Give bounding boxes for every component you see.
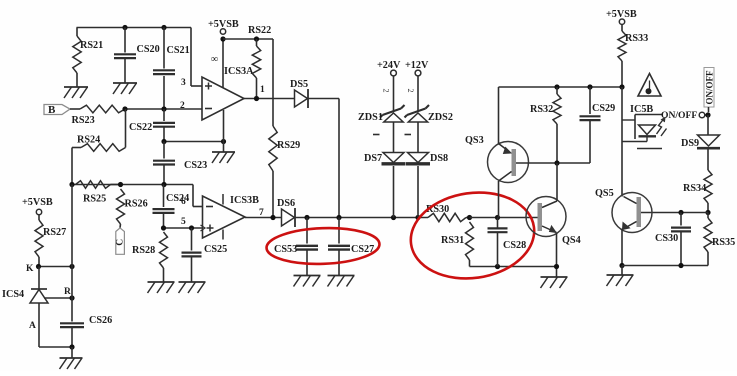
capacitor CS27	[338, 218, 340, 244]
resistor RS25	[76, 181, 111, 189]
wire ZDS1 to DS7	[393, 122, 395, 153]
svg-text:2: 2	[180, 101, 185, 111]
wire +24V column	[393, 76, 395, 111]
resistor RS29 pull-up	[269, 126, 277, 171]
reference pin R wire	[44, 297, 72, 299]
node dot QS3 base/QS4 collector	[554, 160, 559, 165]
resistor RS21	[76, 28, 78, 37]
svg-text:1: 1	[260, 85, 265, 95]
wire pin2 row	[125, 108, 202, 110]
resistor RS31	[466, 222, 474, 260]
diode DS7	[383, 153, 404, 163]
svg-text:7: 7	[259, 208, 264, 218]
ground for RS21	[64, 86, 88, 88]
svg-text:RS33: RS33	[625, 33, 648, 44]
wire RS24 branch	[125, 109, 127, 148]
svg-text:B: B	[48, 104, 56, 116]
capacitor CS53	[306, 218, 308, 244]
ground for RS28	[148, 281, 175, 283]
svg-text:CS23: CS23	[184, 160, 207, 171]
ground for ICS3A	[223, 142, 225, 153]
ground for CS25	[179, 281, 206, 283]
wire pin5 row	[164, 227, 203, 229]
ground for ICS4	[71, 347, 73, 358]
node dot K node	[36, 264, 41, 269]
op-amp ICS3B output wire pin 7	[245, 217, 282, 219]
svg-text:DS9: DS9	[681, 138, 699, 149]
node dot divider RS24/RS25	[69, 182, 74, 187]
resistor RS22	[254, 36, 259, 41]
svg-text:CS20: CS20	[137, 44, 160, 55]
diode DS9	[707, 115, 709, 135]
svg-text:QS5: QS5	[595, 188, 614, 199]
svg-text:RS35: RS35	[712, 237, 735, 248]
wire DS8 to bus	[417, 166, 419, 218]
capacitor CS30	[680, 213, 682, 226]
red ellipse annotation around RS30 RS31 CS28	[405, 185, 540, 286]
node dot ICS3A V- junction	[221, 139, 226, 144]
input tag B	[44, 105, 70, 115]
svg-text:DS5: DS5	[290, 79, 308, 90]
wire +5VSB rail to pullups	[223, 38, 273, 40]
resistor RS26	[117, 189, 125, 224]
svg-text:K: K	[26, 264, 34, 274]
svg-text:CS21: CS21	[167, 45, 190, 56]
svg-text:RS23: RS23	[72, 115, 95, 126]
zener diode ZDS2	[407, 109, 426, 116]
wire TL431 cathode row	[39, 266, 73, 268]
capacitor CS21	[163, 28, 165, 69]
svg-text:5: 5	[181, 217, 186, 227]
wire TL431 anode bottom row	[39, 346, 72, 348]
svg-text:QS3: QS3	[465, 135, 484, 146]
svg-text:R: R	[64, 287, 71, 297]
node dot RS30/RS31	[467, 215, 472, 220]
svg-text:RS24: RS24	[77, 135, 100, 146]
wire +12V column	[417, 76, 419, 111]
ground for QS4	[541, 276, 568, 278]
transistor QS3	[488, 142, 529, 183]
resistor RS27	[38, 215, 40, 220]
tag C	[116, 228, 125, 254]
transistor QS4	[526, 197, 566, 237]
ground for CS20	[113, 82, 137, 84]
node dot ON/OFF	[705, 112, 710, 117]
node dot RS33 junction	[619, 84, 624, 89]
op-amp ICS3B	[203, 196, 246, 238]
node dot CS30 top	[678, 210, 683, 215]
wire QS3 base row	[516, 162, 590, 164]
node dot +5VSB rail	[220, 36, 225, 41]
capacitor CS23	[163, 142, 165, 159]
node dot QS5 emitter	[619, 263, 624, 268]
capacitor CS29	[589, 87, 591, 114]
ground for CS27	[328, 275, 355, 277]
warning triangle symbol	[638, 74, 661, 97]
svg-text:DS8: DS8	[430, 153, 448, 164]
svg-text:2: 2	[382, 89, 391, 93]
node dot CS23/CS24 row junction	[161, 182, 166, 187]
node dot CS29 top	[587, 84, 592, 89]
wire ICS3A gnd row	[164, 141, 224, 143]
svg-text:RS28: RS28	[132, 245, 155, 256]
op-amp ICS3A	[202, 77, 244, 120]
capacitor CS24	[163, 185, 165, 208]
svg-text:RS27: RS27	[43, 227, 66, 238]
wire top rail from RS21 to ICS3A pin3	[77, 27, 192, 29]
node dot CS28 bottom	[495, 264, 500, 269]
node dot CS25 tap	[189, 225, 194, 230]
wire divider column to CS26	[71, 185, 73, 322]
svg-text:C: C	[115, 239, 125, 246]
node dot CS22/CS23 junction	[161, 139, 166, 144]
node dot RS29 junction	[270, 215, 275, 220]
red ellipse annotation around CS53 CS27	[266, 226, 380, 266]
svg-text:ZDS1: ZDS1	[358, 112, 383, 123]
svg-text:CS22: CS22	[129, 122, 152, 133]
svg-text:CS26: CS26	[89, 315, 112, 326]
svg-text:RS32: RS32	[530, 104, 553, 115]
svg-text:ZDS2: ZDS2	[428, 112, 453, 123]
polarity dash ZDS2	[405, 134, 412, 136]
node dot QS3 collector/CS28	[495, 215, 500, 220]
wire RS33 column to opto	[621, 87, 623, 197]
diode DS6	[282, 209, 295, 226]
svg-text:CS25: CS25	[204, 244, 227, 255]
wire DS7 to bus	[393, 166, 395, 218]
svg-text:∞: ∞	[211, 54, 218, 65]
node dot top rail CS21	[161, 25, 166, 30]
node dot CS53	[304, 215, 309, 220]
resistor RS23	[70, 108, 80, 110]
resistor RS28	[160, 232, 168, 268]
svg-text:+24V: +24V	[377, 60, 401, 71]
polarity dash ZDS1	[373, 134, 380, 136]
svg-text:RS34: RS34	[683, 183, 706, 194]
node dot CS30 bottom	[678, 263, 683, 268]
transistor QS5	[612, 193, 652, 233]
svg-text:+12V: +12V	[405, 60, 429, 71]
diode DS5	[295, 90, 308, 107]
resistor RS32	[556, 87, 558, 94]
svg-text:QS4: QS4	[562, 235, 581, 246]
node dot top rail CS20	[122, 25, 127, 30]
capacitor CS20	[124, 28, 126, 53]
wire bus to QS4 base	[470, 217, 538, 219]
ground for CS53	[294, 275, 321, 277]
diode DS8	[408, 153, 429, 163]
node dot RS26 junction	[118, 182, 123, 187]
wire reference row	[72, 184, 193, 186]
svg-text:DS7: DS7	[364, 153, 382, 164]
node dot K column junction	[69, 264, 74, 269]
wire DS5 output down to bus	[308, 98, 339, 100]
wire center bus	[296, 217, 429, 219]
svg-text:3: 3	[181, 78, 186, 88]
svg-text:RS26: RS26	[125, 199, 148, 210]
svg-text:A: A	[29, 321, 36, 331]
wire bottom row to QS4 emitter	[470, 266, 557, 268]
node dot DS8	[415, 215, 420, 220]
wire latch top rail	[499, 86, 623, 88]
node dot CS24/RS28	[161, 225, 166, 230]
zener diode ZDS1	[383, 109, 402, 116]
svg-text:CS28: CS28	[503, 240, 526, 251]
svg-text:ICS4: ICS4	[2, 289, 24, 300]
capacitor CS26	[60, 322, 84, 324]
svg-text:ON/OFF: ON/OFF	[661, 110, 697, 121]
light emission arrow	[657, 119, 665, 135]
svg-text:DS6: DS6	[277, 198, 295, 209]
capacitor CS25	[191, 228, 193, 251]
svg-text:CS24: CS24	[166, 193, 189, 204]
node dot DS7	[391, 215, 396, 220]
node dot QS5 base node	[705, 210, 710, 215]
resistor RS33	[621, 24, 623, 31]
resistor RS35	[704, 218, 712, 252]
capacitor CS28	[497, 218, 499, 229]
resistor RS34	[704, 170, 712, 203]
svg-text:RS25: RS25	[83, 194, 106, 205]
svg-text:RS22: RS22	[248, 25, 271, 36]
svg-text:CS53: CS53	[274, 244, 297, 255]
node dot RS23 junction	[122, 106, 127, 111]
svg-text:ICS3A: ICS3A	[224, 66, 254, 77]
svg-text:RS31: RS31	[441, 235, 464, 246]
resistor RS30	[428, 213, 466, 221]
svg-text:ON/OFF: ON/OFF	[705, 70, 715, 104]
boxed vertical net label ON/OFF	[704, 68, 714, 108]
svg-text:IC5B: IC5B	[630, 104, 653, 115]
shunt regulator ICS4	[38, 267, 40, 290]
node dot RS32 top	[554, 84, 559, 89]
svg-text:ICS3B: ICS3B	[230, 195, 259, 206]
node dot pin2 CS21/CS22 junction	[161, 106, 166, 111]
capacitor CS22	[163, 109, 165, 121]
svg-text:CS29: CS29	[592, 103, 615, 114]
wire bottom right row	[622, 265, 708, 267]
svg-text:RS21: RS21	[80, 40, 103, 51]
ground for QS5	[621, 266, 623, 276]
svg-text:CS30: CS30	[655, 233, 678, 244]
node dot QS4 emitter junction	[554, 264, 559, 269]
svg-text:RS29: RS29	[277, 140, 300, 151]
op-amp ICS3A output node 1	[244, 98, 295, 100]
svg-text:+5VSB: +5VSB	[22, 197, 53, 208]
wire ZDS2 to DS8	[417, 122, 419, 153]
wire QS5 base row	[641, 212, 708, 214]
node dot DS5/CS27	[336, 215, 341, 220]
wire DS9 to RS34	[707, 150, 709, 171]
svg-text:2: 2	[406, 89, 415, 93]
resistor RS24	[81, 144, 126, 152]
